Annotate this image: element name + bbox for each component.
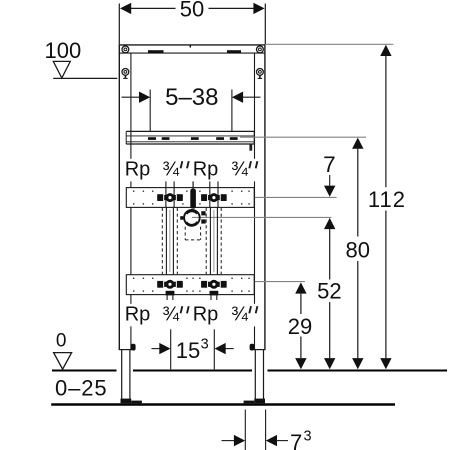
dimension 15-3 bbox=[152, 329, 234, 369]
screw mid-right with hook bbox=[257, 69, 264, 79]
floor raw line bbox=[51, 403, 395, 405]
svg-text:¾: ¾ bbox=[231, 303, 248, 325]
dimension 50 bbox=[119, 4, 265, 45]
right foot plate bbox=[244, 401, 255, 404]
right tap tube between plates bbox=[210, 207, 217, 274]
left telescoping foot bbox=[122, 350, 130, 400]
plate hole dots upper bbox=[133, 191, 250, 205]
extension line frame top to 112 bbox=[266, 43, 393, 45]
svg-text:3: 3 bbox=[201, 337, 209, 353]
lower tap fitting right bbox=[201, 280, 226, 300]
svg-text:50: 50 bbox=[180, 0, 204, 21]
crossbar adjustable rail bbox=[126, 131, 254, 144]
left vertical rail bbox=[119, 44, 132, 350]
svg-text:7: 7 bbox=[290, 430, 302, 450]
crossbar slots bbox=[148, 137, 238, 140]
screw top-right bbox=[257, 46, 264, 53]
plate hole dots lower bbox=[133, 278, 250, 292]
svg-text:Rp: Rp bbox=[125, 158, 151, 180]
lower mounting plate bbox=[126, 275, 254, 295]
leader line 80cm rail reference bbox=[240, 136, 366, 138]
frame top rail bbox=[119, 45, 266, 53]
left leg clip bbox=[131, 344, 136, 351]
svg-text:5–38: 5–38 bbox=[165, 84, 218, 111]
dimension 5-38 bbox=[122, 90, 261, 132]
svg-text:0–25: 0–25 bbox=[55, 376, 108, 401]
leader line drain reference bbox=[192, 216, 331, 218]
svg-text:Rp: Rp bbox=[193, 158, 219, 180]
top rail slots bbox=[148, 50, 164, 53]
drain stub pipe bbox=[190, 189, 196, 209]
svg-text:0: 0 bbox=[56, 330, 67, 351]
svg-text:80: 80 bbox=[345, 237, 369, 262]
leader line upper taps reference bbox=[227, 196, 337, 198]
svg-text:52: 52 bbox=[317, 279, 341, 304]
lower tap fitting left bbox=[157, 280, 182, 300]
upper Rp labels bbox=[122, 159, 263, 182]
dashed drain box bbox=[185, 227, 200, 240]
right vertical rail bbox=[254, 44, 266, 350]
svg-text:7: 7 bbox=[323, 152, 336, 177]
screw mid-left with hook bbox=[122, 69, 129, 79]
right telescoping foot bbox=[255, 350, 263, 400]
left tap tube between plates bbox=[166, 207, 173, 274]
leader line lower taps reference bbox=[227, 281, 305, 283]
svg-text:¾: ¾ bbox=[231, 158, 248, 180]
dimension 112 bbox=[380, 45, 391, 56]
dimension 80 bbox=[352, 138, 363, 149]
screw top-left bbox=[122, 46, 129, 53]
upper tap fitting right bbox=[201, 180, 226, 207]
drain pipe clamp circle bbox=[180, 210, 205, 226]
dimension 7-3 bbox=[222, 410, 289, 450]
fitting pipe slits bbox=[164, 194, 221, 288]
right leg clip bbox=[250, 344, 255, 351]
left foot plate bbox=[121, 399, 132, 404]
crossbar lock clamp bbox=[249, 144, 252, 151]
svg-text:¾: ¾ bbox=[162, 158, 179, 180]
lower Rp labels bbox=[122, 304, 263, 327]
svg-text:112: 112 bbox=[368, 187, 406, 212]
svg-text:¾: ¾ bbox=[162, 303, 179, 325]
dimension 29 bbox=[295, 282, 306, 293]
dashed guides right tap bbox=[206, 208, 221, 274]
dimension 52 bbox=[324, 218, 335, 229]
dashed guides left tap bbox=[162, 208, 177, 274]
svg-text:100: 100 bbox=[45, 38, 82, 63]
svg-text:3: 3 bbox=[304, 428, 312, 444]
svg-text:Rp: Rp bbox=[193, 303, 219, 325]
floor finished line bbox=[52, 369, 447, 371]
svg-text:29: 29 bbox=[288, 314, 312, 339]
svg-text:Rp: Rp bbox=[125, 303, 151, 325]
svg-text:15: 15 bbox=[176, 338, 200, 363]
upper tap fitting left bbox=[157, 180, 182, 207]
upper mounting plate bbox=[126, 188, 254, 208]
